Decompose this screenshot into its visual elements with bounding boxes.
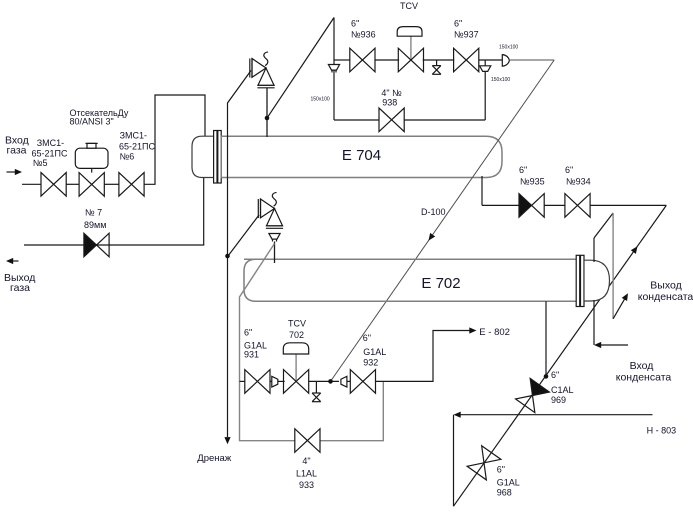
svg-text:конденсата: конденсата — [638, 291, 693, 303]
wire main line left segment — [334, 59, 350, 61]
wire gas inlet line — [22, 183, 41, 185]
svg-text:№934: №934 — [566, 177, 591, 187]
svg-text:ЗМС1-: ЗМС1- — [120, 130, 147, 140]
wire PSV discharge drain header — [228, 71, 252, 438]
valve ЗМС1-65-21ПС №5 — [41, 173, 66, 197]
svg-text:TCV: TCV — [288, 319, 306, 329]
flow arrow drain Дренаж — [224, 437, 230, 444]
svg-text:№5: №5 — [33, 158, 48, 168]
vessel E702 right head — [584, 260, 610, 301]
svg-text:6": 6" — [551, 370, 559, 380]
reducer funnel after 931 — [270, 380, 272, 382]
wire gray feed from E702 to control set — [240, 244, 296, 441]
wire H-803 drop to diagonal end — [453, 415, 455, 507]
svg-text:E 704: E 704 — [342, 147, 381, 164]
wire control line left segment — [240, 380, 246, 382]
valve 6" G1AL 932 — [350, 370, 375, 394]
reducer funnel before 932 — [341, 376, 347, 387]
actuator tank of shutoff valve — [91, 168, 93, 172]
wire — [104, 183, 119, 185]
wire E704 outlet drop — [481, 176, 483, 205]
relief valve PSV2 on E702 — [258, 192, 283, 228]
svg-text:№936: №936 — [351, 30, 376, 40]
svg-text:150х100: 150х100 — [311, 97, 330, 103]
svg-text:702: 702 — [289, 330, 304, 340]
flow arrow D-100 — [426, 233, 435, 242]
valve № 7 89мм — [84, 233, 109, 257]
node junction dot control line — [328, 379, 333, 384]
wire head bottom nozzle — [593, 300, 595, 345]
svg-text:4": 4" — [302, 456, 310, 466]
svg-text:H - 803: H - 803 — [647, 426, 677, 436]
reducer cone 150x100 on line — [502, 55, 509, 67]
svg-text:6": 6" — [519, 165, 527, 175]
svg-text:E - 802: E - 802 — [479, 327, 510, 338]
flow arrow gas inlet — [7, 171, 17, 173]
reducer funnel 150x100 left — [328, 65, 339, 71]
svg-text:6'': 6'' — [363, 333, 372, 343]
svg-text:6'': 6'' — [351, 19, 360, 29]
flow arrow condensate inlet — [599, 344, 628, 346]
svg-text:6": 6" — [497, 465, 505, 475]
wire H-803 header — [458, 414, 653, 416]
actuator dome TCV — [410, 36, 412, 59]
svg-text:№6: №6 — [120, 152, 135, 162]
valve 6" G1AL 968 — [467, 446, 501, 480]
svg-text:ЗМС1-: ЗМС1- — [37, 138, 64, 148]
vessel E702 body — [244, 259, 578, 301]
wire top assembly left riser — [333, 18, 335, 65]
svg-text:D-100: D-100 — [421, 207, 446, 217]
wire bypass line — [334, 119, 379, 121]
control valve TCV 702 — [284, 370, 309, 394]
wire PSV1 nozzle — [266, 88, 268, 137]
wire diagonal to D-100 and TCV702 junction — [331, 60, 555, 381]
valve 6" G1AL 931 — [245, 370, 270, 394]
svg-text:969: 969 — [551, 395, 566, 405]
svg-text:80/ANSI 3": 80/ANSI 3" — [70, 116, 114, 126]
svg-text:65-21ПС: 65-21ПС — [119, 142, 155, 152]
wire head top nozzle — [593, 238, 595, 262]
svg-text:TCV: TCV — [400, 1, 418, 11]
svg-text:931: 931 — [244, 350, 259, 360]
svg-text:4" №: 4" № — [381, 88, 402, 98]
reducer funnel below №937 — [484, 60, 486, 66]
valve 6" №935 — [519, 194, 544, 218]
svg-text:G1AL: G1AL — [363, 347, 386, 357]
wire main line to corner — [509, 59, 554, 61]
drain valve small under control line — [315, 381, 317, 393]
wire — [423, 59, 455, 61]
wire — [66, 183, 79, 185]
wire to E704 top inlet — [144, 95, 205, 184]
vessel E704 left head — [192, 136, 214, 177]
svg-text:65-21ПС: 65-21ПС — [32, 149, 68, 159]
drain valve small under line — [436, 60, 438, 66]
valve 6" №934 — [565, 194, 590, 218]
svg-text:№935: №935 — [520, 177, 545, 187]
valve 6" C1AL 969 — [516, 378, 550, 412]
svg-text:938: 938 — [382, 98, 397, 108]
svg-text:E 702: E 702 — [421, 275, 460, 292]
wire to E-802 — [376, 331, 472, 382]
svg-text:6": 6" — [244, 328, 252, 338]
svg-text:конденсата: конденсата — [616, 371, 672, 383]
svg-text:932: 932 — [363, 358, 378, 368]
valve 6" №937 — [454, 48, 479, 72]
svg-text:Дренаж: Дренаж — [197, 453, 232, 464]
valve 6" №936 — [350, 48, 375, 72]
wire riser from PSV1 junction to bypass line — [268, 18, 334, 118]
svg-text:150х100: 150х100 — [499, 45, 518, 51]
svg-text:6": 6" — [454, 19, 462, 29]
shutoff valve Отсекатель Ду80 — [79, 173, 104, 197]
wire — [309, 380, 339, 382]
actuator dome TCV 702 — [295, 354, 297, 380]
wire E704 head bottom nozzle to outlet — [24, 176, 204, 245]
flow arrow E-802 — [469, 327, 476, 333]
valve 4" L1AL 933 — [295, 429, 320, 453]
svg-text:968: 968 — [497, 488, 512, 498]
wire jog to outer riser — [594, 213, 613, 238]
flow arrow on condensate diagonal — [631, 244, 640, 253]
svg-text:Выход: Выход — [650, 280, 681, 292]
node junction dot on drain header — [225, 254, 230, 259]
svg-text:933: 933 — [299, 480, 314, 490]
relief valve PSV1 on E704 — [250, 52, 275, 88]
wire to right corner — [590, 204, 666, 206]
svg-text:газа: газа — [7, 145, 27, 157]
node junction dot E702 bottom nozzle — [544, 374, 549, 379]
flow arrow gas outlet — [9, 260, 19, 262]
vessel E702 flange — [576, 255, 580, 306]
valve 4" №938 — [379, 108, 404, 132]
wire gray bypass right side — [320, 382, 384, 441]
svg-text:150х100: 150х100 — [491, 77, 510, 83]
reducer funnel under PSV2 — [269, 234, 280, 240]
node junction dot PSV1 nozzle — [265, 116, 270, 121]
svg-text:№937: №937 — [454, 30, 479, 40]
wire condensate diagonal — [454, 205, 667, 506]
vessel E704 flange — [214, 131, 217, 184]
svg-text:G1AL: G1AL — [497, 478, 520, 488]
svg-text:C1AL: C1AL — [551, 385, 574, 395]
wire — [479, 59, 503, 61]
svg-text:89мм: 89мм — [84, 220, 106, 230]
wire PSV2 nozzle into E702 — [274, 242, 276, 264]
wire — [544, 204, 565, 206]
flow arrow condensate outlet — [613, 298, 625, 319]
svg-text:газа: газа — [10, 282, 30, 294]
vessel E704 body — [221, 136, 502, 177]
svg-text:6": 6" — [565, 165, 573, 175]
svg-text:Вход: Вход — [630, 360, 654, 372]
svg-text:№ 7: № 7 — [85, 208, 102, 218]
wire — [375, 59, 399, 61]
wire outer riser — [612, 213, 614, 319]
wire PSV2 discharge to drain header — [228, 215, 259, 256]
svg-text:L1AL: L1AL — [296, 469, 317, 479]
valve ЗМС1-65-21ПС №6 — [119, 173, 144, 197]
control valve TCV — [398, 48, 423, 72]
wire E702 bottom nozzle — [545, 301, 547, 376]
